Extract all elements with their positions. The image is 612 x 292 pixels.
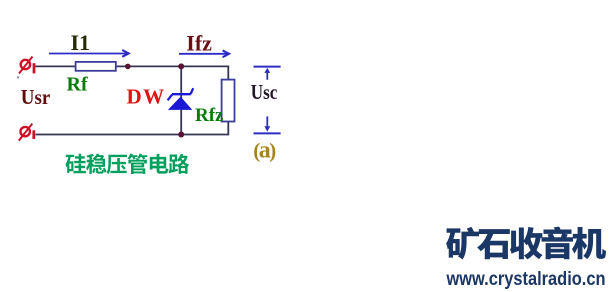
label Rf (67, 74, 88, 96)
voltage marker Usc plus terminal (254, 67, 281, 80)
svg-text:(a): (a) (253, 137, 276, 163)
svg-text:www.crystalradio.cn: www.crystalradio.cn (446, 269, 606, 290)
node junction zener bottom (178, 132, 184, 138)
terminal input top (19, 57, 35, 74)
node junction zener top (178, 63, 184, 69)
terminal input bottom (19, 124, 35, 141)
label Usr (21, 85, 51, 109)
node junction after Rf (125, 64, 131, 70)
svg-text:Usc: Usc (251, 80, 277, 104)
resistor Rfz (222, 80, 235, 122)
label (a) (253, 137, 276, 163)
svg-text:I1: I1 (71, 30, 91, 55)
title 硅稳压管电路 (65, 154, 189, 174)
voltage marker Usc minus terminal (254, 116, 281, 133)
wire right branch down to Rfz (227, 66, 229, 136)
current arrow I1 (49, 50, 129, 57)
zener diode DW (168, 88, 194, 110)
label I1 (71, 30, 91, 55)
svg-text:DW: DW (127, 84, 166, 108)
label Ifz (186, 31, 212, 56)
svg-text:Usr: Usr (21, 85, 51, 109)
watermark logo 矿石收音机 (446, 227, 606, 260)
label DW (127, 84, 166, 108)
wire top (input to node junctions) (36, 65, 229, 67)
svg-text:Ifz: Ifz (186, 31, 212, 56)
wire zener branch (180, 66, 182, 134)
wire bottom return (36, 134, 229, 136)
current arrow Ifz (179, 50, 229, 57)
label Rfz (195, 105, 224, 126)
label Usc (251, 80, 277, 104)
svg-text:Rf: Rf (67, 74, 88, 96)
resistor Rf (76, 62, 116, 71)
artifact speck (17, 76, 19, 78)
watermark url www.crystalradio.cn (446, 269, 606, 290)
svg-text:Rfz: Rfz (195, 105, 224, 126)
